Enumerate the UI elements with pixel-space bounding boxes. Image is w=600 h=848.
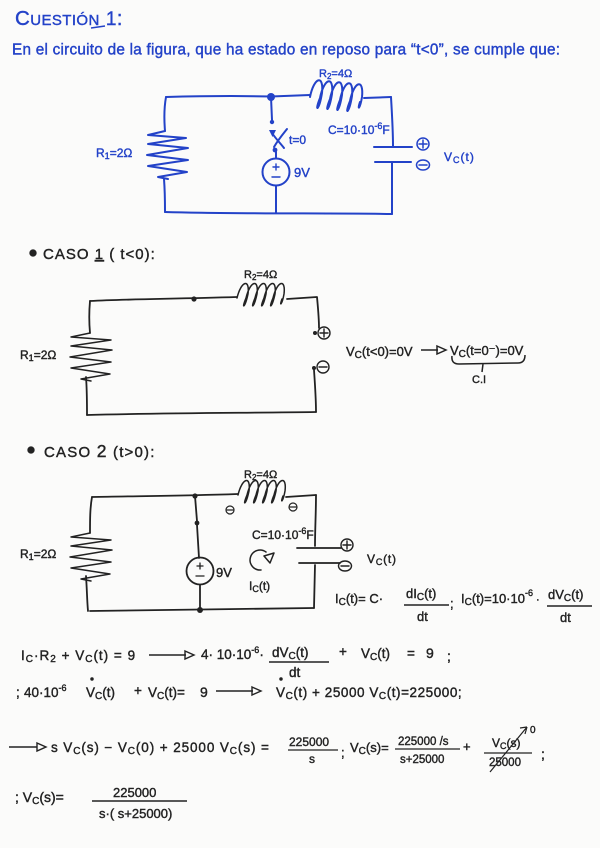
wire right lower [391, 163, 393, 214]
svg-text:; VC(s)=: ; VC(s)= [15, 789, 64, 807]
wire left upper [90, 497, 92, 533]
source V1 circle 9V [263, 159, 290, 186]
svg-text:C=10·10-6F: C=10·10-6F [252, 526, 314, 542]
resistor R2 coil [237, 283, 284, 305]
capacitor C1 bottom plate [375, 161, 411, 163]
heading CASO 2 [28, 447, 35, 454]
source V1 plus [197, 563, 203, 569]
svg-text:R2=4Ω: R2=4Ω [244, 269, 277, 282]
svg-text:9: 9 [200, 684, 208, 700]
svg-text:s VC(s) − VC(0) + 25000 VC(s): s VC(s) − VC(0) + 25000 VC(s) = [51, 740, 270, 757]
svg-text:R1=2Ω: R1=2Ω [96, 146, 132, 161]
polarity mark left of R2 [226, 506, 234, 514]
wire top-right [364, 97, 391, 98]
svg-text:9V: 9V [294, 165, 310, 180]
switch SW1 cross [272, 129, 287, 148]
dot over second Vdot [279, 677, 282, 680]
strike arrow to 0 [490, 727, 527, 772]
dot over first Vdot [90, 677, 93, 680]
svg-text:C=10·10-6F: C=10·10-6F [328, 121, 390, 137]
long arrow [149, 651, 194, 659]
svg-text:+: + [463, 739, 471, 754]
node mid dot [195, 521, 200, 526]
svg-text:CASO 1 ( t<0):: CASO 1 ( t<0): [43, 246, 156, 263]
svg-text:dt: dt [560, 610, 571, 625]
svg-text:VC(s): VC(s) [492, 736, 521, 751]
resistor R1 coil [147, 131, 188, 179]
node junction dot bottom [197, 607, 203, 613]
source V1 minus [196, 575, 204, 577]
svg-text:VC(t): VC(t) [444, 150, 475, 165]
resistor R1 coil [70, 333, 112, 381]
wire left lower [164, 179, 165, 212]
long arrow [216, 687, 261, 695]
svg-text:VC(t) + 25000 VC(t)=225000;: VC(t) + 25000 VC(t)=225000; [276, 685, 462, 702]
underbrace [452, 355, 525, 372]
heading CASO 1 [30, 250, 37, 257]
source V1 minus [272, 176, 280, 178]
wire bottom [90, 608, 314, 611]
node junction dot [191, 296, 196, 301]
wire middle branch upper [271, 97, 272, 120]
svg-text:s: s [309, 752, 315, 766]
svg-text:VC(t): VC(t) [86, 685, 115, 702]
terminal plus symbol [417, 138, 429, 150]
wire left [164, 97, 166, 131]
wire source bottom [275, 186, 277, 213]
node junction dot top [192, 493, 197, 498]
svg-text:VC(t): VC(t) [367, 552, 397, 567]
wire right lower [314, 565, 315, 608]
svg-text:IC(t)=10·10-6 ·: IC(t)=10·10-6 · [461, 588, 540, 608]
terminal minus symbol [417, 160, 430, 170]
source V1 circle 9V [187, 558, 214, 585]
source V1 plus [273, 164, 279, 170]
svg-text:9V: 9V [216, 565, 232, 580]
terminal minus symbol [317, 361, 329, 373]
svg-text:4· 10·10-6·: 4· 10·10-6· [201, 645, 264, 662]
wire left upper [88, 301, 91, 333]
svg-text:+: + [339, 644, 347, 659]
svg-text:VC(t=0⁻)=0V: VC(t=0⁻)=0V [450, 343, 524, 360]
svg-text:;: ; [16, 685, 20, 700]
wire bottom [87, 412, 316, 415]
node A junction dot [267, 93, 275, 101]
svg-text:225000: 225000 [289, 735, 329, 749]
svg-text:;: ; [447, 648, 451, 664]
resistor R2 coil [238, 480, 285, 502]
loop current arrow Ic [250, 550, 274, 570]
svg-text:0: 0 [530, 725, 536, 736]
wire right upper [315, 495, 316, 546]
svg-text:IC·R2 + VC(t) = 9: IC·R2 + VC(t) = 9 [21, 648, 136, 665]
wire right upper [391, 97, 393, 146]
wire top [166, 95, 310, 97]
svg-text:dVC(t): dVC(t) [548, 587, 583, 604]
svg-text:;: ; [450, 596, 454, 611]
wire source bottom [199, 585, 201, 610]
capacitor C1 top plate [374, 146, 412, 148]
capacitor C1 bottom plate [299, 562, 340, 564]
switch SW1 arrowhead [269, 130, 276, 137]
svg-text:s·( s+25000): s·( s+25000) [99, 806, 172, 821]
svg-text:9: 9 [426, 645, 434, 661]
terminal minus symbol [339, 561, 352, 571]
svg-text:225000: 225000 [113, 785, 156, 800]
svg-text:VC(t): VC(t) [361, 646, 390, 663]
svg-text:IC(t): IC(t) [249, 579, 270, 594]
resistor R2 coil [310, 80, 362, 111]
wire to plus terminal [287, 297, 319, 328]
svg-text:t=0: t=0 [289, 133, 306, 147]
svg-text:VC(t)=: VC(t)= [148, 685, 185, 702]
svg-text:s+25000: s+25000 [400, 754, 444, 766]
wire top right [286, 495, 316, 497]
svg-text:VC(t<0)=0V: VC(t<0)=0V [346, 344, 413, 361]
arrow start [9, 743, 46, 751]
svg-text:C.I: C.I [472, 374, 486, 386]
node dot minus [312, 366, 316, 370]
svg-text:R2=4Ω: R2=4Ω [319, 68, 352, 81]
svg-text:VC(s)=: VC(s)= [350, 740, 389, 757]
node switch top dot [270, 120, 274, 124]
svg-text:R1=2Ω: R1=2Ω [20, 348, 56, 363]
svg-text:CASO 2 (t>0):: CASO 2 (t>0): [44, 441, 156, 461]
arrow [421, 346, 446, 354]
capacitor C1 top plate [297, 547, 341, 549]
underline under 1 [91, 26, 105, 28]
wire bottom [165, 212, 392, 214]
svg-text:En el circuito de la figura, q: En el circuito de la figura, que ha esta… [12, 42, 560, 59]
svg-text:IC(t)= C·: IC(t)= C· [335, 591, 383, 608]
wire minus to bottom [314, 370, 316, 412]
polarity mark right of R2 [289, 503, 297, 511]
svg-text:dVC(t): dVC(t) [272, 645, 309, 662]
wire middle branch [195, 496, 199, 558]
terminal plus symbol [341, 539, 353, 551]
svg-text:dIC(t): dIC(t) [406, 586, 436, 603]
svg-text:R2=4Ω: R2=4Ω [244, 469, 277, 482]
terminal plus symbol [318, 327, 330, 339]
wire top [92, 494, 238, 497]
node switch bottom dot [273, 148, 278, 153]
wire left lower [86, 576, 88, 611]
node dot plus [313, 331, 317, 335]
svg-text:dt: dt [417, 609, 428, 624]
source V1 lead [275, 152, 277, 158]
svg-text:40·10-6: 40·10-6 [24, 683, 67, 700]
svg-text:CUESTIÓN 1:: CUESTIÓN 1: [15, 7, 123, 30]
resistor R1 coil [70, 533, 112, 581]
svg-text:R1=2Ω: R1=2Ω [20, 547, 56, 562]
svg-text:;: ; [341, 745, 345, 760]
svg-text:=: = [407, 646, 415, 661]
svg-text:225000 /s: 225000 /s [398, 736, 449, 748]
svg-text:+: + [134, 683, 142, 698]
wire left lower [86, 377, 87, 415]
svg-text:;: ; [541, 746, 545, 762]
svg-text:dt: dt [289, 665, 301, 680]
wire top [90, 297, 237, 301]
